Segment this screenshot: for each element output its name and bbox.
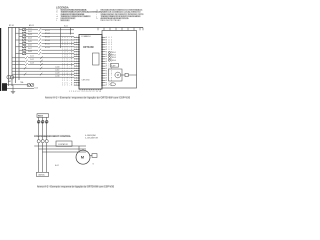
svg-text:S04: S04 — [106, 44, 112, 46]
pin L18 — [74, 77, 79, 79]
svg-text:S15: S15 — [106, 70, 112, 72]
phase drop to load 2 — [42, 143, 44, 149]
pin R6 — [102, 48, 106, 50]
svg-text:S-01: S-01 — [64, 25, 68, 27]
pin R3 — [102, 41, 106, 43]
legend item k — [101, 17, 129, 19]
pin L21 — [74, 84, 79, 86]
svg-text:L-100: L-100 — [55, 67, 59, 69]
bus top horizontal — [8, 27, 143, 29]
svg-text:D-01: D-01 — [28, 27, 32, 29]
phase bus 1 horizontal — [34, 145, 86, 147]
command line 2 — [12, 70, 74, 72]
wire cluster a — [7, 85, 34, 92]
lamp row 1 — [109, 51, 111, 53]
svg-text:CARGA: CARGA — [38, 174, 45, 177]
breaker row 5 — [19, 42, 74, 44]
legend item c — [61, 13, 85, 15]
bus vertical L3 — [15, 28, 17, 84]
legend item a — [61, 9, 87, 11]
motor circle M1 — [115, 72, 121, 78]
svg-text:S18: S18 — [106, 78, 112, 80]
battery box dark — [2, 83, 7, 91]
svg-text:COMPENSAÇÃO INDUT. CONTROL: COMPENSAÇÃO INDUT. CONTROL — [34, 135, 72, 138]
phase line 2 vertical upper — [42, 117, 44, 139]
caption anexo A-1 backing — [45, 96, 130, 98]
fuse F3 — [45, 121, 48, 124]
contactor stubs — [58, 145, 71, 147]
legend item h — [101, 11, 141, 13]
oval indicator — [110, 83, 116, 86]
command line 1 — [12, 67, 74, 69]
fuse F1 — [37, 121, 40, 124]
load box CARGA — [37, 172, 49, 176]
bus vertical L1 — [8, 28, 10, 87]
breaker row 8 — [16, 53, 75, 55]
pin R16 — [102, 72, 106, 74]
pin L17 — [74, 75, 79, 77]
node feeder drop — [70, 28, 72, 35]
svg-text:Anexo A-2 - Exemplo: esquema d: Anexo A-2 - Exemplo: esquema de ligação … — [37, 186, 115, 189]
phase continue down 2 — [42, 149, 44, 172]
relay box U1 outline — [79, 35, 102, 90]
pin R9 — [102, 56, 106, 58]
pin R15 — [102, 70, 106, 72]
svg-text:Anexo A-1 - Exemplo: esquema d: Anexo A-1 - Exemplo: esquema de ligação … — [45, 97, 131, 100]
CT pair — [27, 83, 30, 86]
svg-text:S17: S17 — [106, 75, 112, 77]
svg-text:1 2 3 4 5 6 7 8 9 10 11 12 13: 1 2 3 4 5 6 7 8 9 10 11 12 13 14 — [69, 91, 101, 93]
motor terminal box — [90, 155, 92, 157]
wire to contact — [121, 74, 125, 76]
pin L11 — [74, 60, 79, 62]
svg-text:MEDICAO: MEDICAO — [61, 19, 70, 22]
pin L4 — [74, 44, 79, 46]
svg-text:SIN-4: SIN-4 — [112, 60, 116, 62]
label compensacao backing — [34, 135, 70, 137]
svg-text:L-130: L-130 — [55, 76, 59, 78]
phase bus 3 horizontal — [42, 151, 86, 153]
svg-text:D-06: D-06 — [28, 44, 32, 46]
contact marks line 1 — [24, 67, 42, 70]
pin L20 — [74, 82, 79, 84]
svg-text:BT-06: BT-06 — [45, 47, 50, 49]
pin R13 — [102, 65, 106, 67]
lamp row 4 — [109, 59, 111, 61]
contactor K1 box — [56, 141, 72, 146]
svg-text:C-03: C-03 — [30, 62, 34, 64]
svg-text:BT-01: BT-01 — [9, 25, 14, 27]
pin R17 — [102, 75, 106, 77]
lamp row 3 — [109, 57, 111, 59]
bus taps — [98, 28, 143, 31]
svg-text:S06: S06 — [106, 49, 112, 51]
pin R1 — [102, 37, 106, 39]
bus vertical L4 — [18, 28, 20, 81]
svg-text:D-03: D-03 — [28, 34, 32, 36]
svg-text:BAT: BAT — [8, 80, 11, 83]
pin R11 — [102, 60, 106, 62]
svg-text:S02: S02 — [106, 40, 112, 42]
motor feeder drops — [79, 146, 87, 152]
transformer TP1 — [7, 75, 11, 79]
switch row 10 — [12, 60, 74, 62]
pin R19 — [102, 79, 106, 81]
pin R10 — [102, 58, 106, 60]
caption anexo A-2 backing — [37, 185, 114, 187]
svg-text:BT-01: BT-01 — [45, 30, 50, 32]
legend item g — [101, 9, 143, 11]
svg-text:E-02: E-02 — [55, 165, 59, 167]
legend item i — [101, 13, 144, 15]
pin L5 — [74, 46, 79, 48]
pin L7 — [74, 51, 79, 53]
svg-text:S05: S05 — [106, 47, 112, 49]
legend item b — [61, 11, 102, 13]
svg-text:S16: S16 — [106, 73, 112, 75]
legend item d — [61, 15, 91, 17]
svg-text:L-120: L-120 — [55, 73, 59, 75]
pin R4 — [102, 44, 106, 46]
svg-text:BT-04: BT-04 — [45, 40, 50, 42]
CSP label box — [111, 64, 119, 68]
motor sub-box — [109, 69, 123, 81]
phase continue down 3 — [46, 152, 48, 172]
pin L19 — [74, 79, 79, 81]
contact square — [125, 73, 128, 76]
breaker row 6 — [16, 46, 75, 48]
svg-text:D-05: D-05 — [28, 41, 32, 43]
vertical feeder x60 — [60, 28, 62, 49]
svg-text:L-110: L-110 — [55, 70, 59, 72]
pin R8 — [102, 53, 106, 55]
relay inner sub-box — [93, 53, 100, 65]
fuse F2 — [41, 121, 44, 124]
switch row 11 — [12, 64, 74, 66]
page left edge scan artifact — [0, 28, 1, 91]
pin L14 — [74, 67, 79, 69]
svg-text:D-02: D-02 — [28, 31, 32, 33]
pin R5 — [102, 46, 106, 48]
svg-text:ORTD-8W: ORTD-8W — [83, 47, 95, 49]
svg-text:k: k — [97, 18, 98, 20]
svg-text:S01: S01 — [106, 37, 112, 39]
svg-text:CONTATOR: CONTATOR — [58, 143, 68, 146]
below-box stubs — [80, 89, 101, 90]
legend item j — [101, 15, 141, 17]
lower: source label box — [37, 114, 49, 118]
pin R7 — [102, 51, 106, 53]
bus vertical L2 — [11, 28, 13, 87]
CT 2 — [41, 140, 44, 143]
phase continue down 1 — [38, 146, 40, 172]
svg-text:D-08: D-08 — [28, 51, 32, 53]
svg-text:D-04: D-04 — [28, 38, 32, 40]
breaker row 3 — [19, 36, 74, 38]
command line 3 — [12, 73, 74, 75]
pin L10 — [74, 58, 79, 60]
legend item e — [61, 17, 76, 19]
phase line 1 vertical upper — [38, 117, 40, 139]
breaker row 1 — [19, 29, 74, 31]
pin L2 — [74, 39, 79, 41]
CT 3 — [45, 140, 48, 143]
pin R20 — [102, 82, 106, 84]
pin L8 — [74, 53, 79, 55]
svg-text:E-01: E-01 — [35, 88, 39, 90]
pin R14 — [102, 67, 106, 69]
svg-text:C-02: C-02 — [30, 59, 34, 61]
legend item f — [61, 20, 70, 22]
svg-text:BT-05: BT-05 — [45, 43, 50, 45]
svg-text:RELE DE PROTECAO: RELE DE PROTECAO — [101, 19, 121, 22]
svg-text:COMANDO: COMANDO — [81, 35, 91, 38]
pin L12 — [74, 63, 79, 65]
motor M2 circle — [76, 150, 90, 164]
svg-text:BT-02: BT-02 — [45, 33, 50, 35]
panel box outline — [102, 31, 137, 89]
phase drop to load 3 — [46, 143, 48, 152]
pin L13 — [74, 65, 79, 67]
svg-text:D-07: D-07 — [28, 48, 32, 50]
pin L9 — [74, 56, 79, 58]
svg-text:CSP-V30: CSP-V30 — [82, 80, 90, 82]
lamp row 2 — [109, 54, 111, 56]
pin L15 — [74, 70, 79, 72]
pin R12 — [102, 63, 106, 65]
phase bus 2 horizontal — [38, 148, 86, 150]
phase line 3 vertical upper — [46, 117, 48, 139]
contact marks line 3 — [24, 73, 42, 76]
pin R21 — [102, 84, 106, 86]
pin R18 — [102, 77, 106, 79]
ground — [11, 92, 15, 94]
svg-text:5- DISJUNTOR: 5- DISJUNTOR — [85, 137, 99, 139]
pin L16 — [74, 72, 79, 74]
pin R2 — [102, 39, 106, 41]
switch row 9 — [12, 57, 74, 59]
pin L1 — [74, 37, 79, 39]
svg-text:S03: S03 — [106, 42, 112, 44]
svg-text:REDE: REDE — [38, 116, 44, 118]
svg-text:M: M — [117, 73, 119, 77]
breaker row 2 — [16, 32, 75, 34]
breaker row 7 — [19, 49, 74, 51]
pin L6 — [74, 48, 79, 50]
svg-text:C-01: C-01 — [30, 56, 34, 58]
CT 1 — [37, 140, 40, 143]
command line 4 — [12, 76, 74, 78]
phase drop to load 1 — [38, 143, 40, 146]
pin L3 — [74, 41, 79, 43]
breaker row 4 — [16, 39, 75, 41]
svg-text:BT-03: BT-03 — [45, 37, 50, 39]
